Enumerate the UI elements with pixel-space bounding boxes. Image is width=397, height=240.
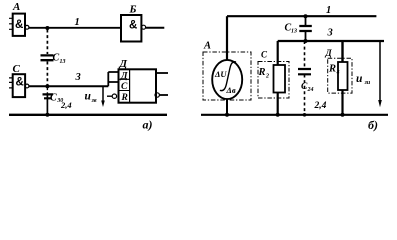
svg-text:2: 2 bbox=[265, 74, 269, 80]
svg-text:R: R bbox=[258, 67, 266, 78]
svg-text:&: & bbox=[15, 19, 23, 31]
svg-text:С: С bbox=[121, 82, 128, 92]
svg-text:а): а) bbox=[143, 118, 153, 132]
svg-text:Б: Б bbox=[129, 4, 137, 16]
svg-text:4: 4 bbox=[336, 70, 340, 76]
svg-text:Δв: Δв bbox=[226, 85, 236, 95]
svg-text:u: u bbox=[85, 91, 92, 103]
svg-text:u: u bbox=[356, 73, 363, 85]
svg-text:24: 24 bbox=[307, 87, 314, 93]
svg-text:R: R bbox=[121, 93, 128, 103]
svg-text:С: С bbox=[13, 63, 21, 75]
svg-text:13: 13 bbox=[60, 59, 66, 65]
svg-text:2,4: 2,4 bbox=[60, 100, 72, 110]
svg-text:ΔU: ΔU bbox=[214, 69, 227, 79]
svg-text:Д: Д bbox=[119, 58, 128, 70]
svg-text:С: С bbox=[261, 50, 268, 60]
svg-text:R: R bbox=[328, 64, 336, 75]
svg-text:б): б) bbox=[368, 118, 378, 132]
svg-text:Д: Д bbox=[325, 48, 333, 58]
svg-text:2,4: 2,4 bbox=[314, 101, 327, 111]
svg-text:1: 1 bbox=[326, 5, 331, 16]
svg-text:А: А bbox=[12, 1, 20, 13]
svg-text:&: & bbox=[16, 77, 24, 89]
svg-text:С: С bbox=[53, 53, 60, 64]
svg-text:3: 3 bbox=[75, 72, 81, 83]
svg-text:С: С bbox=[50, 93, 57, 104]
svg-text:А: А bbox=[203, 41, 211, 52]
svg-text:1: 1 bbox=[75, 17, 80, 28]
svg-text:зи: зи bbox=[364, 80, 371, 86]
svg-text:3: 3 bbox=[327, 28, 333, 39]
svg-text:зв: зв bbox=[91, 98, 97, 104]
svg-text:&: & bbox=[129, 20, 137, 32]
svg-text:Д: Д bbox=[120, 72, 128, 82]
svg-text:13: 13 bbox=[291, 29, 297, 35]
